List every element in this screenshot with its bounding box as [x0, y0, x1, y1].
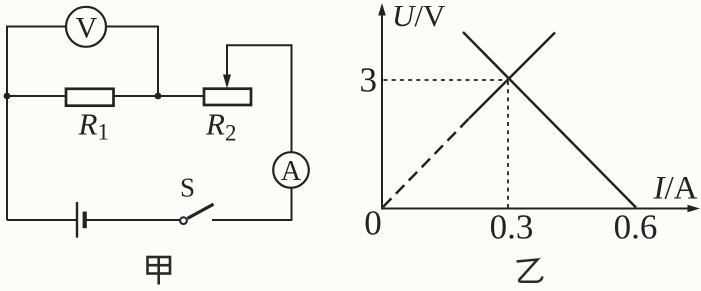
x-axis arrowhead — [688, 205, 701, 213]
wire main rail middle — [114, 95, 205, 97]
wire bottom rail left to battery — [7, 219, 76, 221]
rising line dashed part — [383, 118, 470, 208]
dashed guide horizontal at U=3 — [384, 79, 509, 81]
svg-text:3: 3 — [360, 61, 378, 100]
wire voltmeter right to node — [106, 27, 158, 97]
svg-text:0.3: 0.3 — [490, 208, 534, 247]
svg-text:0.6: 0.6 — [614, 208, 658, 247]
rheostat R2 — [204, 46, 251, 105]
wire ammeter to bottom rail — [212, 188, 292, 220]
svg-text:I/A: I/A — [653, 171, 698, 207]
ammeter A — [273, 152, 309, 188]
resistor R1 — [66, 89, 114, 106]
node at left rail — [4, 93, 11, 100]
svg-text:V: V — [76, 12, 98, 45]
falling line — [463, 32, 636, 208]
y-axis arrowhead — [378, 3, 386, 16]
wire rheostat wiper to ammeter — [227, 45, 292, 152]
wire main rail left — [7, 95, 66, 97]
label jia (circuit name) — [148, 257, 171, 285]
x-axis I — [382, 208, 690, 210]
svg-text:S: S — [180, 173, 195, 203]
svg-text:0: 0 — [364, 204, 382, 243]
svg-text:A: A — [281, 156, 302, 187]
battery — [77, 202, 85, 238]
dashed guide vertical at I=0.3 — [507, 81, 509, 208]
wire bottom rail battery to switch — [87, 219, 181, 221]
svg-text:U/V: U/V — [392, 0, 446, 33]
y-axis U — [381, 14, 383, 210]
switch S — [180, 204, 213, 224]
voltmeter U-V — [66, 7, 106, 47]
rising line solid part — [469, 33, 555, 119]
label yi (graph name) — [517, 260, 543, 282]
wire top-left from corner to voltmeter — [7, 27, 66, 221]
node at voltmeter right branch — [155, 93, 162, 100]
